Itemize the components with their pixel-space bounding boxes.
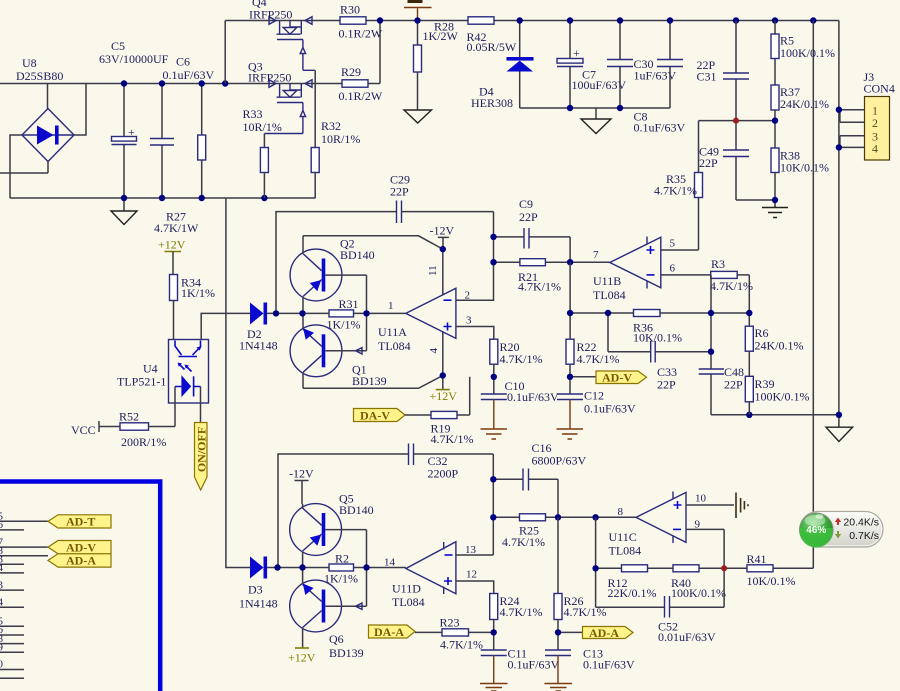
- ground (triangle, below cap rail): [581, 108, 611, 134]
- svg-text:100uF/63V: 100uF/63V: [572, 78, 627, 92]
- svg-text:0.1R/2W: 0.1R/2W: [339, 27, 383, 41]
- svg-text:AD-V: AD-V: [602, 371, 632, 385]
- wire D2 node to C29: [276, 212, 397, 314]
- capacitor C5 63V/10000UF: [112, 84, 137, 199]
- resistor R32 10R/1%: [311, 119, 360, 198]
- svg-text:4: 4: [0, 597, 4, 609]
- svg-text:22P: 22P: [657, 378, 676, 392]
- svg-text:8: 8: [618, 506, 624, 518]
- resistor R25 4.7K/1%: [493, 514, 636, 549]
- ground (earth, pin10 rotated): [736, 493, 748, 519]
- transistor Q2 BD140: [290, 236, 375, 314]
- svg-text:D3: D3: [248, 583, 263, 597]
- transistor Q1 BD139: [290, 313, 387, 388]
- svg-text:U11C: U11C: [609, 530, 637, 544]
- wire top-left rail y=83.5: [0, 83, 342, 85]
- wire R22 net vertical: [569, 338, 571, 340]
- svg-text:46%: 46%: [806, 525, 826, 536]
- resistor R21 4.7K/1%: [494, 259, 610, 294]
- wire U11D pin13 up: [456, 454, 493, 555]
- svg-text:22K/0.1%: 22K/0.1%: [608, 586, 657, 600]
- rectifier U8 bridge D25SB80: [22, 109, 74, 162]
- capacitor C11 0.1uF/63V: [480, 647, 560, 691]
- svg-text:200R/1%: 200R/1%: [121, 435, 166, 449]
- svg-text:1N4148: 1N4148: [239, 597, 278, 611]
- wire Q4 gate to R32: [314, 70, 316, 147]
- svg-text:6: 6: [0, 519, 4, 531]
- svg-text:4.7K/1%: 4.7K/1%: [654, 184, 697, 198]
- node dots J3 / C31 net: [733, 118, 739, 124]
- svg-text:4.7K/1%: 4.7K/1%: [500, 605, 543, 619]
- resistor R39 100K/0.1%: [745, 376, 809, 415]
- svg-text:22P: 22P: [699, 156, 718, 170]
- wire U11C pin10 to earth: [686, 504, 734, 506]
- ground (triangle, bottom right): [826, 415, 853, 442]
- svg-text:AD-T: AD-T: [66, 515, 95, 529]
- svg-text:1N4148: 1N4148: [239, 339, 278, 353]
- resistor R28 1K/2W: [414, 20, 459, 111]
- svg-text:4: 4: [0, 562, 4, 574]
- sheet pin stubs: [0, 521, 48, 678]
- wire bridge left leg: [10, 135, 22, 198]
- svg-text:R3: R3: [711, 257, 725, 271]
- svg-text:AD-A: AD-A: [589, 626, 619, 640]
- svg-text:1K/1%: 1K/1%: [327, 318, 361, 332]
- svg-text:4.7K/1%: 4.7K/1%: [440, 638, 483, 652]
- node dots D3/Q5/Q6: [274, 564, 280, 570]
- ground (bars, below R38): [762, 200, 788, 218]
- svg-text:1: 1: [388, 300, 394, 312]
- svg-text:R32: R32: [321, 119, 341, 133]
- resistor R33 10R/1%: [243, 107, 282, 198]
- resistor R27 4.7K/1W: [198, 84, 206, 199]
- wire Q2 collector to -12V node: [303, 236, 443, 249]
- svg-text:D25SB80: D25SB80: [16, 69, 63, 83]
- svg-text:C6: C6: [176, 55, 190, 69]
- svg-text:7: 7: [593, 249, 599, 261]
- resistor R19 4.7K/1%: [405, 377, 474, 446]
- svg-text:1K/1%: 1K/1%: [324, 572, 358, 586]
- connector J3 CON4: [839, 70, 895, 160]
- svg-text:ON/OFF: ON/OFF: [195, 427, 209, 472]
- svg-text:22P: 22P: [390, 185, 409, 199]
- svg-text:TL084: TL084: [609, 544, 642, 558]
- transistor Q3 IRFP250 (MOSFET): [264, 80, 312, 134]
- svg-text:10: 10: [695, 493, 707, 505]
- optocoupler U4 TLP521-1: [117, 340, 209, 404]
- wire U11D pin12 to R24: [456, 581, 494, 594]
- svg-text:U11A: U11A: [378, 325, 407, 339]
- wire U11C pin9 down: [686, 529, 724, 568]
- resistor R42 0.05R/5W: [467, 17, 517, 54]
- svg-text:R52: R52: [119, 410, 139, 424]
- capacitor C13 0.1uF/63V: [545, 647, 636, 691]
- svg-text:6800P/63V: 6800P/63V: [532, 454, 587, 468]
- wire gate drive vertical to D3: [226, 198, 250, 568]
- resistor R38 10K/0.1%: [771, 148, 829, 200]
- op-amp U11C TL084: [609, 492, 707, 558]
- svg-text:-12V: -12V: [289, 467, 314, 481]
- wire long vertical 2 (top rail to ground): [838, 21, 840, 415]
- svg-text:AD-A: AD-A: [66, 554, 96, 568]
- resistor R36 10K/0.1%: [633, 310, 682, 345]
- svg-text:C5: C5: [111, 39, 125, 53]
- svg-text:R33: R33: [243, 107, 263, 121]
- svg-text:6: 6: [670, 263, 676, 275]
- svg-text:4.7K/1%: 4.7K/1%: [710, 279, 753, 293]
- resistor R35 4.7K/1%: [654, 121, 703, 250]
- svg-text:C12: C12: [584, 389, 604, 403]
- wire Q1 collector to +12V node: [303, 376, 443, 389]
- svg-text:R31: R31: [339, 297, 359, 311]
- flag AD-V (sheet): [48, 540, 111, 554]
- resistor R2 1K/1%: [303, 552, 367, 586]
- svg-text:10K/0.1%: 10K/0.1%: [780, 161, 829, 175]
- resistor R20 4.7K/1%: [490, 339, 543, 394]
- svg-text:+12V: +12V: [288, 651, 316, 665]
- svg-text:U4: U4: [143, 362, 158, 376]
- svg-text:0.1uF/63V: 0.1uF/63V: [508, 658, 560, 672]
- ground (triangle, below R28): [404, 110, 432, 123]
- ground (triangle, below C5 rail): [111, 198, 137, 225]
- flag DA-V: [354, 409, 406, 423]
- svg-text:IRFP250: IRFP250: [248, 71, 291, 85]
- power +12V (Q6): [288, 648, 316, 665]
- node dots top rail: [377, 17, 383, 23]
- svg-text:100K/0.1%: 100K/0.1%: [780, 46, 835, 60]
- svg-text:63V/10000UF: 63V/10000UF: [99, 52, 169, 66]
- wire node C31/C49 cross: [699, 120, 776, 122]
- svg-text:13: 13: [465, 544, 477, 556]
- node dots top-left: [121, 80, 127, 86]
- resistor R12 22K/0.1%: [608, 565, 657, 600]
- resistor R31 1K/1%: [303, 297, 367, 332]
- svg-text:4: 4: [428, 348, 440, 354]
- svg-text:0.1uF/63V: 0.1uF/63V: [583, 658, 635, 672]
- diode D3 1N4148: [239, 557, 303, 611]
- svg-text:10K/0.1%: 10K/0.1%: [747, 574, 796, 588]
- svg-text:12: 12: [466, 569, 477, 581]
- resistor R34 1K/1%: [170, 275, 216, 340]
- svg-text:DA-A: DA-A: [374, 625, 404, 639]
- wire bridge top drop: [47, 84, 49, 109]
- capacitor C10 0.1uF/63V: [481, 379, 560, 439]
- svg-text:CON4: CON4: [864, 82, 895, 96]
- power +12V (above R34): [158, 238, 186, 275]
- svg-text:R30: R30: [340, 3, 360, 17]
- svg-text:0.1uF/63V: 0.1uF/63V: [584, 402, 636, 416]
- flag DA-A: [369, 625, 416, 639]
- wire bridge bottom stub: [0, 162, 48, 174]
- resistor R26 4.7K/1%: [554, 517, 607, 650]
- svg-text:100K/0.1%: 100K/0.1%: [755, 390, 810, 404]
- capacitor C32 2200P: [278, 444, 493, 568]
- capacitor C33 22P: [608, 313, 711, 392]
- node dots D2/Q-node: [273, 310, 279, 316]
- svg-text:4.7K/1W: 4.7K/1W: [154, 221, 199, 235]
- svg-text:4.7K/1%: 4.7K/1%: [577, 352, 620, 366]
- wire Q3 gate to R33: [263, 134, 265, 148]
- capacitor C48 22P: [699, 275, 744, 415]
- svg-text:R2: R2: [335, 552, 349, 566]
- svg-text:0.1R/2W: 0.1R/2W: [339, 89, 383, 103]
- power +12V (U11A): [428, 332, 457, 403]
- svg-text:IRFP250: IRFP250: [249, 8, 292, 22]
- svg-text:14: 14: [384, 557, 396, 569]
- svg-text:1K/1%: 1K/1%: [181, 286, 215, 300]
- svg-text:9: 9: [0, 642, 4, 654]
- transistor Q4 IRFP250 (MOSFET): [269, 17, 315, 71]
- flag AD-T: [48, 515, 111, 529]
- svg-text:-12V: -12V: [430, 224, 455, 238]
- svg-text:4.7K/1%: 4.7K/1%: [518, 280, 561, 294]
- resistor R5 100K/0.1%: [771, 21, 835, 86]
- diode D2 1N4148: [239, 303, 303, 353]
- svg-text:5: 5: [670, 238, 676, 250]
- svg-text:0.7K/s: 0.7K/s: [849, 530, 879, 542]
- wire output node line y=414.8: [711, 414, 839, 416]
- flag ON/OFF: [195, 423, 209, 491]
- transistor Q6 BD139: [290, 568, 367, 661]
- op-amp U11A TL084: [367, 288, 473, 353]
- svg-text:4.7K/1%: 4.7K/1%: [431, 432, 474, 446]
- svg-text:20.4K/s: 20.4K/s: [843, 517, 879, 529]
- capacitor C52 0.01uF/63V: [596, 568, 725, 644]
- svg-text:24K/0.1%: 24K/0.1%: [780, 97, 829, 111]
- svg-text:100K/0.1%: 100K/0.1%: [671, 586, 726, 600]
- resistor R37 24K/0.1%: [771, 85, 829, 148]
- svg-text:TL084: TL084: [593, 288, 626, 302]
- svg-text:10R/1%: 10R/1%: [321, 132, 360, 146]
- overlay download widget: [800, 512, 884, 548]
- svg-text:0: 0: [0, 659, 4, 671]
- capacitor C7 100uF/63V: [557, 21, 627, 109]
- capacitor C31 22P: [697, 21, 750, 121]
- svg-text:10R/1%: 10R/1%: [243, 120, 282, 134]
- svg-text:C31: C31: [697, 70, 717, 84]
- svg-text:Q6: Q6: [329, 632, 344, 646]
- resistor R30 0.1R/2W: [339, 3, 839, 41]
- svg-text:R29: R29: [341, 65, 361, 79]
- svg-text:BD140: BD140: [340, 248, 375, 262]
- wire U11A pin3 to R20: [456, 327, 494, 340]
- svg-text:2: 2: [465, 290, 471, 302]
- wire feedback line y=313: [570, 262, 749, 339]
- wire bridge right riser: [74, 84, 86, 136]
- wire U11B pin6: [661, 274, 711, 276]
- svg-text:DA-V: DA-V: [360, 409, 390, 423]
- svg-text:24K/0.1%: 24K/0.1%: [755, 339, 804, 353]
- svg-text:22P: 22P: [519, 210, 538, 224]
- svg-text:4: 4: [872, 142, 878, 156]
- svg-text:0.1uF/63V: 0.1uF/63V: [163, 68, 215, 82]
- svg-text:2200P: 2200P: [428, 467, 459, 481]
- resistor R40 100K/0.1%: [671, 565, 726, 600]
- sheet block (bottom-left, blue): [0, 482, 160, 691]
- svg-text:3: 3: [0, 579, 4, 591]
- svg-text:C9: C9: [519, 197, 533, 211]
- capacitor C30 1uF/63V: [607, 21, 677, 109]
- capacitor C9 22P: [494, 197, 571, 262]
- wire U11B pin5 to R35: [661, 249, 699, 251]
- svg-text:1K/2W: 1K/2W: [423, 29, 459, 43]
- svg-text:U11D: U11D: [392, 582, 421, 596]
- capacitor C16 6800P/63V: [493, 441, 586, 517]
- svg-text:11: 11: [427, 265, 439, 276]
- port VCC: [71, 421, 120, 437]
- sheet pin numbers: [0, 511, 4, 671]
- wire U4 pins below: [175, 403, 201, 427]
- svg-text:BD140: BD140: [339, 503, 374, 517]
- svg-text:AD-V: AD-V: [66, 540, 96, 554]
- wire opto collector to D2: [201, 313, 250, 339]
- flag AD-A (sheet): [48, 554, 111, 568]
- resistor R23 4.7K/1%: [415, 616, 494, 652]
- svg-text:2: 2: [872, 116, 878, 130]
- svg-text:4.7K/1%: 4.7K/1%: [564, 605, 607, 619]
- wire C29 down to U11A pin2: [456, 212, 494, 301]
- svg-text:3: 3: [466, 315, 472, 327]
- wire Q4 source rail y=20.5: [225, 20, 340, 22]
- wire bottom rail y=198: [10, 197, 316, 199]
- svg-text:+12V: +12V: [158, 238, 186, 252]
- svg-text:+: +: [573, 46, 580, 60]
- op-amp U11D TL084: [367, 542, 478, 609]
- power -12V (U11A): [427, 224, 454, 295]
- resistor R6 24K/0.1%: [745, 326, 803, 376]
- svg-text:0.1uF/63V: 0.1uF/63V: [634, 121, 686, 135]
- flag AD-V (middle): [570, 371, 647, 385]
- capacitor C12 0.1uF/63V: [557, 389, 637, 440]
- capacitor C8 0.1uF/63V: [634, 21, 686, 135]
- wire bottom rail (D4/C7/C30/C8): [520, 107, 670, 109]
- svg-text:R41: R41: [747, 552, 767, 566]
- svg-text:HER308: HER308: [471, 96, 513, 110]
- svg-text:0.1uF/63V: 0.1uF/63V: [507, 390, 559, 404]
- svg-text:22P: 22P: [724, 378, 743, 392]
- svg-text:BD139: BD139: [352, 374, 387, 388]
- resistor R52 200R/1%: [119, 410, 175, 450]
- transistor Q5 BD140: [290, 492, 374, 568]
- svg-text:+: +: [128, 125, 135, 139]
- capacitor C49 22P: [699, 121, 775, 200]
- svg-text:VCC: VCC: [71, 423, 96, 437]
- wire Q4 drain drop to main rail: [224, 21, 226, 84]
- capacitor C6 0.1uF/63V: [150, 84, 174, 199]
- diode D4 HER308: [471, 21, 534, 111]
- wire R12/R40 line: [596, 517, 747, 568]
- power ground bar (brown, top): [404, 2, 432, 21]
- svg-text:0.05R/5W: 0.05R/5W: [467, 40, 517, 54]
- svg-text:4.7K/1%: 4.7K/1%: [502, 535, 545, 549]
- svg-text:10K/0.1%: 10K/0.1%: [633, 331, 682, 345]
- resistor R3 4.7K/1%: [710, 257, 753, 326]
- power -12V (Q5): [289, 467, 314, 505]
- svg-text:TL084: TL084: [378, 339, 411, 353]
- svg-text:TL084: TL084: [392, 595, 425, 609]
- wire long vertical 1 (top rail to R41): [812, 21, 814, 569]
- svg-text:+12V: +12V: [430, 389, 458, 403]
- svg-text:U11B: U11B: [593, 274, 621, 288]
- svg-text:U8: U8: [22, 56, 37, 70]
- resistor R29 0.1R/2W: [339, 21, 383, 104]
- svg-text:4.7K/1%: 4.7K/1%: [500, 352, 543, 366]
- svg-text:R23: R23: [440, 616, 460, 630]
- capacitor C29 22P: [390, 173, 494, 224]
- svg-text:TLP521-1: TLP521-1: [117, 375, 166, 389]
- resistor R24 4.7K/1%: [490, 594, 543, 651]
- op-amp U11B TL084: [593, 237, 676, 303]
- svg-text:BD139: BD139: [329, 646, 364, 660]
- resistor R22 4.7K/1%: [566, 339, 620, 394]
- flag AD-A (middle): [558, 626, 633, 640]
- resistor R41 10K/0.1%: [747, 552, 814, 588]
- svg-text:0.01uF/63V: 0.01uF/63V: [658, 630, 716, 644]
